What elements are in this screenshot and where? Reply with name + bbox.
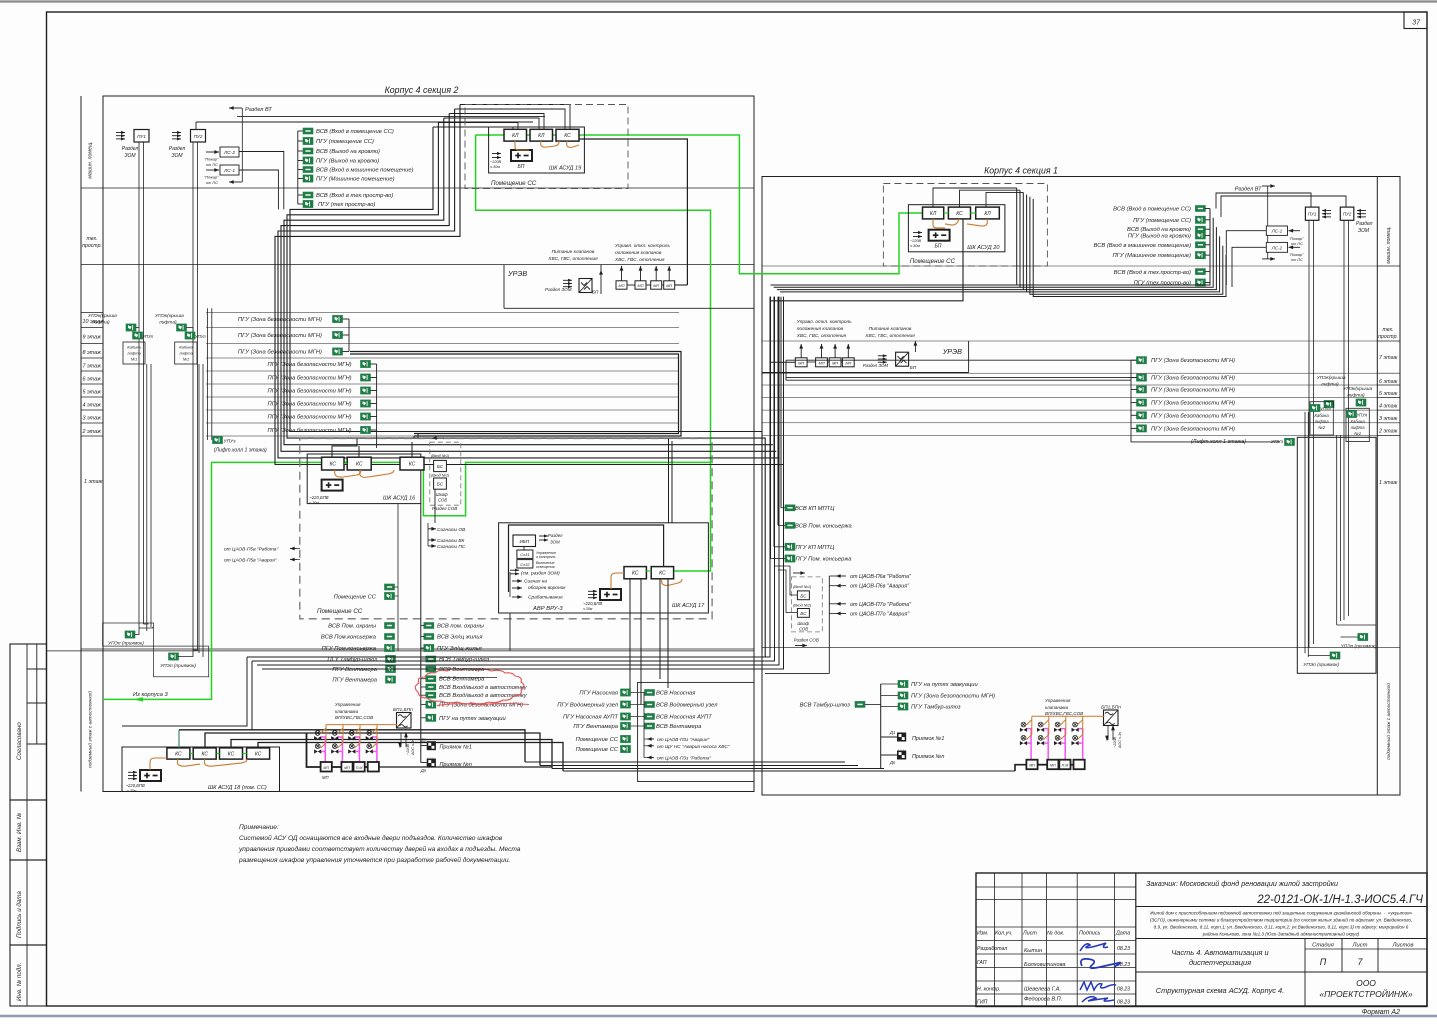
svg-text:(ЗСГО), инженерными сетями и б: (ЗСГО), инженерными сетями и благоустрой… [1150, 917, 1412, 923]
svg-text:УРЭВ: УРЭВ [507, 269, 527, 278]
svg-text:ВСВ (Вход в тех.простр-во): ВСВ (Вход в тех.простр-во) [1114, 270, 1191, 276]
Раздел ЗОМ arrows АВР [539, 535, 548, 537]
svg-text:Примечание:: Примечание: [239, 824, 279, 831]
svg-text:УПЭп (приямок): УПЭп (приямок) [1341, 644, 1377, 650]
vertical pair from ЛС boxes down [239, 152, 284, 210]
lift shaft wires from ПУ2 [192, 142, 194, 650]
svg-text:положения клапанов: положения клапанов [797, 327, 844, 332]
svg-text:22-0121-ОК-1/Н-1.3-ИОС5.4.ГЧ: 22-0121-ОК-1/Н-1.3-ИОС5.4.ГЧ [1256, 894, 1423, 906]
svg-text:ПУ1: ПУ1 [137, 134, 146, 139]
Раздел СОВ dashed box (right) [792, 577, 823, 632]
arrow up from МП right [800, 344, 802, 358]
svg-text:ЛС-2: ЛС-2 [1271, 245, 1283, 250]
svg-text:(см. раздел ЗОМ): (см. раздел ЗОМ) [521, 571, 560, 577]
svg-text:лифта: лифта [126, 351, 141, 356]
svg-text:Раздел: Раздел [122, 146, 139, 152]
svg-text:ВСВ (Вход в тех.простр-во): ВСВ (Вход в тех.простр-во) [316, 193, 393, 199]
svg-text:ШК АСУД 18 (пом. СС): ШК АСУД 18 (пом. СС) [208, 785, 267, 791]
svg-text:ПГУ Эл/щ жилья: ПГУ Эл/щ жилья [437, 646, 482, 652]
svg-text:Изм.: Изм. [977, 931, 989, 937]
svg-text:Помещение СС: Помещение СС [576, 747, 619, 753]
wire АВР left side down [509, 613, 511, 651]
svg-text:КС: КС [409, 462, 416, 468]
signal box ВСВ (Вход в машинное помещение) [298, 169, 303, 171]
page top edge line [0, 0, 1437, 2]
svg-text:8 этаж: 8 этаж [83, 350, 102, 356]
left block row line [81, 648, 754, 650]
wire bundle line 2 [438, 123, 518, 130]
wire ПУ1 right top link [1216, 193, 1311, 209]
cabinet ШК АСУД 16 [307, 454, 421, 504]
right block row line [1377, 372, 1400, 374]
svg-text:4 этаж: 4 этаж [1379, 404, 1398, 410]
svg-text:7 этаж: 7 этаж [83, 364, 102, 370]
ПГУ Пом. консьержа right [785, 555, 795, 562]
svg-text:Помещение СС: Помещение СС [910, 258, 956, 265]
svg-text:БП: БП [935, 244, 942, 250]
svg-text:ПГУ Насосная АУПТ: ПГУ Насосная АУПТ [563, 715, 618, 721]
svg-text:ПГУ (Выход на кровлю): ПГУ (Выход на кровлю) [316, 159, 379, 165]
svg-text:от ЦАОВ-П7о "Работа": от ЦАОВ-П7о "Работа" [850, 602, 912, 608]
svg-text:ПГУ (Зона безопасности МГН): ПГУ (Зона безопасности МГН) [1151, 387, 1235, 393]
magenta valve wires left [321, 737, 325, 762]
right block row line [1377, 384, 1400, 386]
page bottom edge line [0, 1015, 1437, 1018]
svg-text:6 этаж: 6 этаж [1379, 379, 1398, 385]
svg-text:подземный этаж с автостоянкой: подземный этаж с автостоянкой [87, 691, 94, 768]
arrow label от ЦАОВ-П7о "Авария" [836, 613, 846, 615]
green wire C: Из корпуса 3 loop through 1 этаж [103, 462, 711, 699]
svg-text:УПУл: УПУл [1357, 413, 1368, 418]
svg-text:лифта): лифта) [1320, 382, 1339, 388]
svg-text:ВСВ (Вход в помещение СС): ВСВ (Вход в помещение СС) [1113, 207, 1191, 213]
relay box КЛ 1 [504, 129, 527, 141]
svg-text:Приямок №1: Приямок №1 [440, 745, 472, 751]
svg-text:Листов: Листов [1391, 943, 1413, 949]
ВСВ Пом. консьержа right [785, 523, 795, 529]
ВСВ КП МПТЦ [785, 505, 795, 511]
svg-text:ВСВ Насосная АУПТ: ВСВ Насосная АУПТ [656, 715, 712, 721]
svg-text:ВСВ Пом.консьержа: ВСВ Пом.консьержа [321, 635, 377, 641]
svg-text:ПГУ (Зона безопасности МГН): ПГУ (Зона безопасности МГН) [1151, 426, 1235, 432]
signal box ВСВ (Вход в машинное помещение) [1196, 242, 1206, 248]
ПГУ Зона МГН right row [1137, 399, 1147, 406]
arrow up from МП right [834, 344, 836, 358]
ПГУ Тамбур-шлюз right bottom [898, 703, 908, 710]
right bundle line 3 [986, 192, 1023, 207]
arrow to ЛС-1 from fire alarm [206, 169, 219, 171]
svg-text:. . .: . . . [428, 754, 434, 759]
svg-text:БС: БС [800, 611, 807, 616]
svg-text:Дn: Дn [420, 768, 427, 773]
ПГУ Зона МГН right row [1137, 374, 1147, 381]
green links КЛ-КС-КЛ right [944, 212, 949, 214]
svg-text:КС: КС [659, 571, 666, 577]
svg-text:Приямок №n: Приямок №n [912, 754, 944, 760]
wire ЛС right connections [1226, 231, 1266, 285]
right bundle line 2 [960, 190, 1021, 207]
svg-text:П.М: П.М [1062, 763, 1069, 767]
svg-text:Помещение СС: Помещение СС [317, 608, 363, 615]
svg-text:Раздел ЗОМ: Раздел ЗОМ [863, 363, 889, 368]
от ЦАОВ-П5в labels [290, 548, 297, 550]
svg-text:МП: МП [845, 361, 851, 365]
svg-text:УПЭк(крыша: УПЭк(крыша [155, 313, 184, 319]
svg-text:Из корпуса 3: Из корпуса 3 [133, 692, 168, 698]
svg-text:ВСВ Эл/щ жилья: ВСВ Эл/щ жилья [437, 635, 482, 641]
svg-text:ГАП: ГАП [977, 960, 987, 966]
Сх32 box [517, 560, 533, 568]
svg-text:ПГУ на путях эвакуации: ПГУ на путях эвакуации [439, 716, 507, 722]
Раздел СОВ dashed box (left) [430, 442, 461, 505]
svg-text:~220,БПВ: ~220,БПВ [583, 601, 602, 606]
svg-text:МП: МП [653, 284, 659, 288]
left block floor line [81, 343, 103, 345]
svg-text:ПГУ (Зона безопасности МГН): ПГУ (Зона безопасности МГН) [268, 415, 352, 421]
svg-text:ЛС-2: ЛС-2 [223, 150, 235, 156]
svg-text:ПГУ (Зона безопасности МГН): ПГУ (Зона безопасности МГН) [238, 333, 322, 339]
wires continuing right to Приямок cluster area [525, 761, 845, 763]
svg-text:"Пожар": "Пожар" [1289, 253, 1304, 257]
left stamp: Инв. № подл. [10, 945, 47, 1006]
ПГУ Зона МГН right row [1137, 412, 1147, 419]
svg-text:ХВС, ГВС, отопления: ХВС, ГВС, отопления [796, 333, 847, 339]
svg-text:4 этаж: 4 этаж [83, 403, 102, 409]
svg-text:ШК АСУД 19: ШК АСУД 19 [549, 166, 581, 172]
svg-text:Кабина: Кабина [179, 345, 193, 350]
svg-text:ВСВ Тамбур-шлюз: ВСВ Тамбур-шлюз [439, 657, 490, 663]
svg-text:от ЦАОВ-П3з "Авария": от ЦАОВ-П3з "Авария" [657, 737, 710, 743]
lift shaft wires from ПУ1 [138, 142, 140, 628]
svg-text:КЛ: КЛ [538, 133, 545, 139]
green wire main: left cabinet to right block Помещение СС [476, 135, 923, 274]
svg-text:ИБП: ИБП [519, 539, 529, 544]
valves right cluster [1020, 722, 1027, 732]
right bundle line 5 [1029, 196, 1031, 198]
left block floor line [81, 396, 103, 398]
signal box ПГУ (Машинное помещение) [1196, 252, 1206, 259]
arrows into АВР battery [588, 590, 597, 592]
wire bundle line 5 [455, 109, 565, 129]
wire bus to Приямок left [420, 718, 422, 763]
УПЭк green box 2 [177, 324, 187, 331]
svg-text:лифта): лифта) [1346, 393, 1365, 399]
МП boxes chain left УРЭВ [616, 281, 627, 289]
МГН row 6 wire pair left [786, 377, 1137, 379]
svg-text:«ПРОЕКТСТРОЙИНЖ»: «ПРОЕКТСТРОЙИНЖ» [1319, 988, 1412, 999]
signal box ВСВ (Выход на кровлю) [298, 150, 303, 152]
signal box ПГУ (Машинное помещение) [298, 178, 303, 180]
teal wire to КС18-1 [178, 730, 180, 748]
svg-text:~220,БПВ: ~220,БПВ [309, 495, 328, 500]
svg-text:Корпус 4 секция 2: Корпус 4 секция 2 [385, 85, 459, 95]
right block row line [1377, 409, 1400, 411]
svg-text:УПЭп (приямок): УПЭп (приямок) [108, 641, 144, 647]
220 arrows below БП [399, 733, 408, 747]
signal box ВСВ (Вход в тех.простр-во) [298, 194, 303, 196]
arrow label от ЦАОВ-П6в "Работа" [836, 575, 846, 577]
КС box 17-2 [651, 567, 673, 579]
АВР ВРУ-3 cabinet [499, 523, 709, 613]
right bundle horizontals to inter-block verticals [771, 284, 1017, 286]
rows ВСВ/ПГУ охраны консьержа (below dashed zone) [385, 623, 395, 629]
svg-text:ПУ1: ПУ1 [1308, 212, 1317, 217]
svg-text:лифта: лифта [1350, 425, 1366, 430]
ПГУ Зона МГН right row [1137, 386, 1147, 393]
svg-text:УПЭк(крыша: УПЭк(крыша [1317, 375, 1346, 381]
svg-text:ЛС-1: ЛС-1 [1271, 229, 1283, 234]
svg-text:"Пожар": "Пожар" [1289, 237, 1304, 241]
КС box 18-4 [247, 748, 270, 759]
cabinet ШК АСУД 19 [489, 127, 585, 173]
svg-text:тех.: тех. [86, 236, 97, 242]
svg-text:д.9, ул. Введенского, д.11, ко: д.9, ул. Введенского, д.11, корп.1; ул. … [1154, 924, 1409, 930]
svg-text:МП: МП [798, 361, 804, 365]
УПЭп (приямок) left 1 [125, 631, 135, 638]
svg-text:УПУэ: УПУэ [1271, 439, 1284, 445]
svg-text:Раздел ЗОМ: Раздел ЗОМ [545, 287, 572, 292]
left block row line [81, 264, 754, 266]
svg-text:простр.: простр. [82, 243, 102, 249]
arrow label от ЦАОВ-П6в "Авария" [836, 585, 846, 587]
fire loop box ЛС-2 [220, 147, 239, 157]
svg-text:ПГУ (тех простр-во): ПГУ (тех простр-во) [318, 202, 375, 208]
svg-text:№1: №1 [131, 357, 138, 362]
wire bundle line 3 [444, 118, 539, 129]
svg-text:ПГУ Пом. консьержа: ПГУ Пом. консьержа [796, 557, 853, 563]
svg-text:ПГУ Вентамера: ПГУ Вентамера [332, 667, 377, 673]
svg-text:БП: БП [592, 290, 599, 295]
svg-text:Структурная схема АСУД. Корпус: Структурная схема АСУД. Корпус 4. [1156, 986, 1284, 995]
svg-text:ПГУ (Выход на кровлю): ПГУ (Выход на кровлю) [1128, 233, 1191, 239]
svg-text:(Вход №2): (Вход №2) [793, 604, 812, 608]
svg-text:Разработал: Разработал [977, 946, 1007, 952]
power transducer БП УРЭВ left [579, 279, 592, 293]
svg-text:простр.: простр. [1378, 334, 1398, 340]
ЦАОВ bus vertical [828, 576, 830, 673]
Раздел ЗОМ feed right [878, 355, 887, 357]
svg-text:МП: МП [1029, 763, 1035, 767]
БП transducer right cluster [1104, 710, 1119, 726]
svg-text:ПГУ (помещение СС): ПГУ (помещение СС) [1133, 218, 1191, 224]
svg-text:№2: №2 [183, 357, 190, 362]
signal box ВСВ (Выход на кровлю) [1196, 226, 1206, 232]
ПГУ Зона МГН right row [1137, 357, 1147, 364]
svg-text:Раздел СОВ: Раздел СОВ [794, 638, 819, 643]
control unit ПУ1 [134, 130, 149, 143]
svg-text:(Вход №2): (Вход №2) [431, 474, 450, 478]
svg-text:ПГУ Вентамера: ПГУ Вентамера [573, 724, 618, 730]
arrow up from МП 1 [621, 266, 623, 281]
power supply ШК АСУД 18 [140, 770, 161, 781]
svg-text:Помещение СС: Помещение СС [576, 737, 619, 743]
svg-text:МП: МП [832, 361, 838, 365]
left block floor line [81, 435, 103, 437]
svg-text:лифта: лифта [178, 351, 193, 356]
svg-text:Кабина: Кабина [127, 345, 141, 350]
svg-text:МП: МП [666, 284, 672, 288]
wire КС20 down to МП feed [770, 219, 963, 301]
svg-text:МП: МП [619, 284, 625, 288]
svg-text:П: П [1320, 957, 1327, 967]
svg-text:КС: КС [564, 133, 571, 139]
svg-text:Раздел ВТ: Раздел ВТ [1235, 187, 1262, 193]
wire from bundle to МП right [770, 301, 795, 363]
arrows to ПУ1 (Раздел ЗОМ) [116, 132, 125, 134]
bottom bus right cluster [880, 684, 882, 769]
svg-text:ПГУ Насосная: ПГУ Насосная [579, 691, 618, 697]
svg-text:Сигналы ОВ: Сигналы ОВ [437, 527, 466, 533]
magenta valve wires right [1027, 729, 1031, 759]
svg-text:размещения шкафов управления у: размещения шкафов управления уточняется … [238, 856, 510, 864]
svg-text:Раздел ВТ: Раздел ВТ [245, 107, 272, 113]
УПЭп enclosure wires left [139, 627, 153, 628]
svg-text:Срабатывание: Срабатывание [528, 595, 563, 601]
svg-text:от ПС: от ПС [1291, 242, 1303, 246]
wires from КС18 tops to right [179, 730, 525, 762]
ПГУ Зона МГН right row [1137, 425, 1147, 432]
КС box 16-1 [322, 457, 344, 470]
Кабина лифта №1 right [1346, 408, 1369, 441]
svg-text:Подпись: Подпись [1079, 931, 1101, 937]
УПУэ lift hall 1 floor [213, 437, 223, 444]
wire horizontal right УПЭп [1337, 624, 1376, 626]
svg-text:ПГУ Тамбур-шлюз: ПГУ Тамбур-шлюз [327, 657, 377, 663]
svg-text:УПУл: УПУл [1320, 407, 1331, 412]
right block racetrack loop [1297, 437, 1376, 673]
svg-text:Стадия: Стадия [1312, 943, 1334, 949]
wire СОВ bus down [434, 489, 436, 523]
svg-text:Питание клапанов: Питание клапанов [552, 249, 595, 255]
svg-text:~220В: ~220В [910, 239, 922, 243]
svg-text:КС: КС [330, 462, 337, 468]
svg-text:освещения: освещения [536, 565, 555, 569]
svg-text:БС: БС [800, 593, 807, 598]
svg-text:управления приводами соответст: управления приводами соответствует колич… [238, 845, 521, 853]
svg-text:ООО: ООО [1356, 978, 1376, 988]
svg-text:ПГУ Вентамера: ПГУ Вентамера [332, 678, 377, 684]
svg-text:3 этаж: 3 этаж [1379, 416, 1398, 422]
svg-text:ВСВ Водомерный узел: ВСВ Водомерный узел [656, 702, 718, 709]
БС box right 1 [797, 591, 809, 600]
svg-text:№ док.: № док. [1047, 931, 1064, 937]
power supply БП 20 [929, 230, 950, 241]
svg-text:ч.30м: ч.30м [490, 165, 500, 169]
orange wires ШК АСУД 17 [611, 573, 624, 589]
svg-text:района Коньково, зона №1.3 (Юг: района Коньково, зона №1.3 (Юго-Западный… [1202, 931, 1360, 937]
svg-text:ПГУ (Зона безопасности МГН): ПГУ (Зона безопасности МГН) [1151, 401, 1235, 407]
svg-text:Приямок №1: Приямок №1 [912, 736, 944, 742]
svg-text:КС: КС [956, 211, 963, 217]
svg-text:ПГУ (Зона безопасности МГН): ПГУ (Зона безопасности МГН) [268, 362, 352, 368]
ПГУ на путях эвакуации right [898, 681, 908, 688]
svg-text:БП: БП [518, 164, 525, 170]
svg-text:ПГУ (Зона безопасности МГН): ПГУ (Зона безопасности МГН) [1151, 358, 1235, 364]
БС box 1 (left) [434, 460, 447, 471]
arrow up from transducer [600, 270, 602, 294]
svg-text:ВП/ХВС,ГВС,СОВ: ВП/ХВС,ГВС,СОВ [335, 715, 373, 720]
signal box ПГУ (Выход на кровлю) [1196, 232, 1206, 239]
svg-text:ВСВ Пом. охраны: ВСВ Пом. охраны [328, 624, 377, 630]
svg-text:ХВС, ГВС, отопления: ХВС, ГВС, отопления [614, 257, 665, 263]
ИБП box [513, 535, 536, 547]
svg-text:ПГУ КП МПТЦ: ПГУ КП МПТЦ [796, 545, 835, 551]
svg-text:ШК АСУД 16: ШК АСУД 16 [383, 496, 416, 502]
svg-text:машин. помещ.: машин. помещ. [1386, 226, 1392, 263]
svg-text:(Лифт.холл 1 этажа): (Лифт.холл 1 этажа) [214, 448, 267, 454]
wires Насосная bus [643, 693, 645, 758]
svg-text:ПГУ (Зона безопасности МГН): ПГУ (Зона безопасности МГН) [1151, 413, 1235, 419]
signature squiggle Шевелева [1080, 982, 1116, 990]
svg-text:ПГУ Тамбур-шлюз: ПГУ Тамбур-шлюз [911, 705, 961, 711]
power supply БП 19 [511, 150, 532, 161]
wires БС right to bus [774, 566, 797, 595]
svg-text:Питание клапанов: Питание клапанов [869, 326, 912, 332]
arrow to ЛС-2 from fire alarm [206, 151, 219, 153]
svg-text:Заказчик: Московский фонд рено: Заказчик: Московский фонд реновации жило… [1146, 879, 1338, 888]
svg-text:ЗОМ: ЗОМ [1358, 228, 1370, 234]
orange feed to valves left [326, 724, 397, 726]
red strike on ПГУ Зона МГН [437, 704, 529, 706]
svg-text:7 этаж: 7 этаж [1379, 355, 1398, 361]
title block outer [976, 873, 1427, 1007]
svg-text:Раздел: Раздел [1356, 221, 1373, 227]
svg-text:Дn: Дn [889, 760, 896, 765]
right block outer rect [762, 177, 1400, 796]
УРЭВ box left block [503, 265, 505, 308]
wire АВР top riser pair [668, 439, 670, 523]
svg-text:. . .: . . . [898, 746, 904, 751]
svg-text:Жилой дом с приспособлением по: Жилой дом с приспособлением подземной ав… [1149, 910, 1413, 916]
left block outer rect [103, 96, 754, 792]
svg-text:от ЦАОВ-П7о "Авария": от ЦАОВ-П7о "Авария" [850, 612, 910, 618]
svg-text:Управления: Управления [335, 702, 361, 707]
УПЭп (приямок) right 1 [1358, 634, 1368, 641]
svg-text:ПГУ (Зона безопасности МГН): ПГУ (Зона безопасности МГН) [238, 317, 322, 323]
svg-text:положения клапанов: положения клапанов [615, 251, 662, 256]
arrow up from МП 2 [640, 266, 642, 281]
МП chain right heavy wire [1015, 765, 1026, 771]
left block floor line [81, 409, 103, 411]
relay box КЛ 2 [530, 129, 553, 141]
svg-text:Помещение СС: Помещение СС [334, 595, 377, 601]
left block floor line [81, 357, 103, 359]
svg-text:ВСВ Вход/выход в автостоянку: ВСВ Вход/выход в автостоянку [439, 685, 528, 691]
left stamp: Подпись и дата [10, 860, 47, 945]
svg-text:ПГУ (Машинное помещение): ПГУ (Машинное помещение) [316, 177, 395, 183]
dashed zone boundary 1 этаж left block [300, 439, 712, 619]
УПУл box Кабина лифта №2 [185, 332, 195, 339]
power supply ШК АСУД 16 [322, 480, 343, 491]
racetrack wire loop 8-2 rows [350, 352, 681, 437]
svg-text:КС: КС [356, 462, 363, 468]
signal box ПГУ (Выход на кровлю) [298, 160, 303, 162]
relay box КС [556, 129, 579, 141]
svg-text:Лист: Лист [1352, 943, 1368, 949]
svg-text:БС: БС [437, 464, 444, 469]
left stamp: Согласовано block [10, 644, 47, 800]
signal box ВСВ (Вход в помещение СС) [1196, 206, 1206, 212]
right block row line [1377, 646, 1400, 648]
svg-text:ВСВ (Выход на кровлю): ВСВ (Выход на кровлю) [316, 149, 380, 155]
svg-text:от ЦАОВ-П6в "Работа": от ЦАОВ-П6в "Работа" [850, 574, 912, 580]
Сх31 box [517, 550, 533, 558]
arrows to ПУ2 (Раздел ЗОМ) [172, 132, 181, 134]
left block row line [81, 187, 754, 189]
svg-text:ШК АСУД 20: ШК АСУД 20 [967, 245, 1000, 251]
right block row line [1377, 265, 1400, 267]
signature squiggle Болховитинова [1081, 959, 1120, 968]
